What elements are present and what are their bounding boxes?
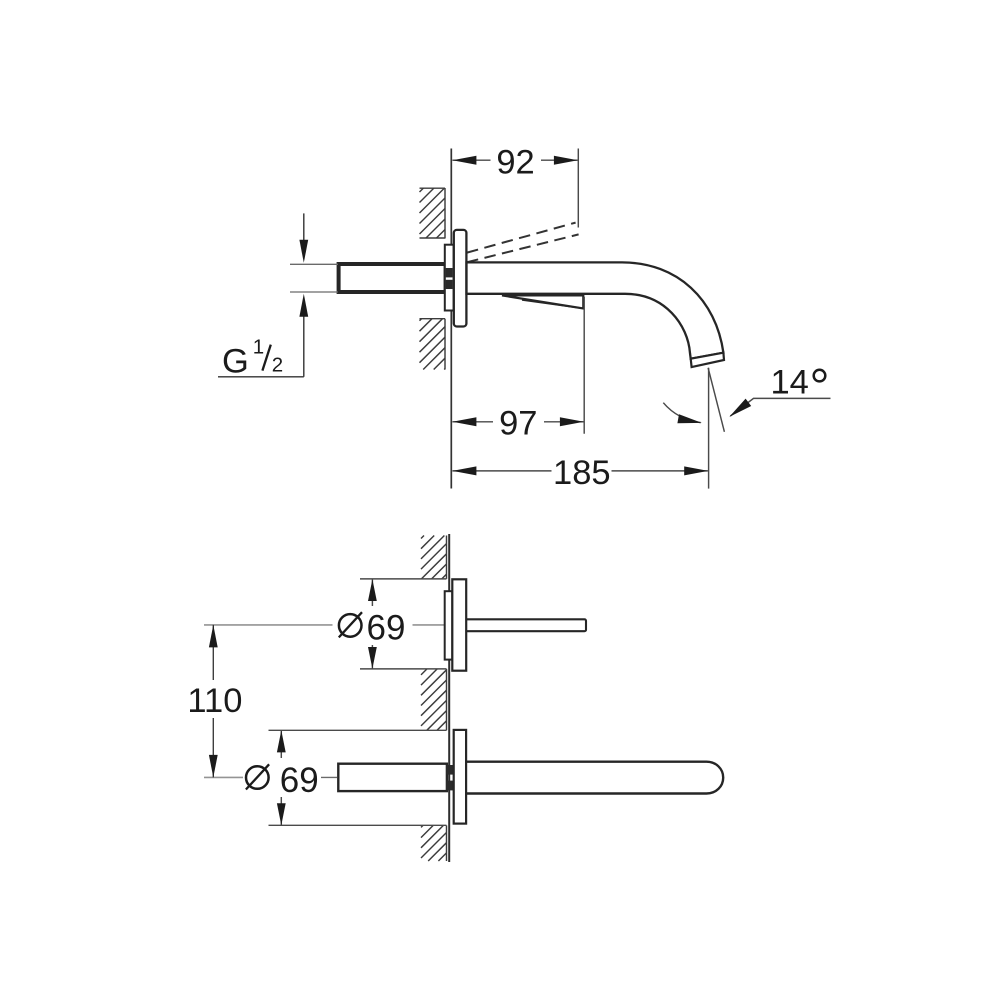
svg-text:185: 185 <box>553 454 611 492</box>
wall face line (upper view) <box>450 149 452 489</box>
wall hatching (upper view, top segment) <box>420 188 446 239</box>
escutcheon flange (upper view, in-wall) <box>445 245 454 311</box>
angle arc <box>663 403 700 423</box>
wall hatching (lower view, top segment) <box>421 536 447 579</box>
label G 1/2 <box>222 336 283 381</box>
extension lines handle view <box>360 579 447 669</box>
escutcheon plate (handle view) <box>452 579 466 670</box>
lever handle raised position (dashed) <box>467 223 579 263</box>
spout (upper view) <box>467 262 724 358</box>
escutcheon flange (handle view) <box>445 591 453 659</box>
wall face line (lower view) <box>448 534 450 862</box>
escutcheon plate (spout view) <box>454 730 466 824</box>
svg-text:110: 110 <box>187 682 242 720</box>
angle arc arrowhead <box>677 414 701 423</box>
svg-text:14: 14 <box>771 363 809 401</box>
aerator tip band <box>691 353 724 367</box>
handle lever rod <box>464 619 586 631</box>
wall hatching (lower view, bottom segment) <box>421 825 447 861</box>
leader arrowhead <box>729 399 751 417</box>
water stream line at 14 degrees <box>708 368 724 432</box>
svg-text:G: G <box>222 342 249 380</box>
lever handle inner edge <box>522 300 581 308</box>
centerline handle view <box>204 624 445 626</box>
escutcheon plate (upper view) <box>454 230 467 327</box>
supply pipe extension lines <box>290 264 338 292</box>
wall hatching (upper view, bottom segment) <box>420 319 446 370</box>
svg-text:2: 2 <box>272 353 283 376</box>
svg-text:1: 1 <box>253 336 264 359</box>
dimension diameter 69 (handle) <box>333 579 412 669</box>
dimension 110 <box>186 625 245 778</box>
G1/2 arrow down <box>299 240 308 263</box>
extension lines spout view <box>269 730 447 825</box>
dimension 185 <box>452 368 708 492</box>
wall hatching (lower view, middle segment) <box>421 669 447 730</box>
label 14 degrees leader <box>730 398 830 416</box>
thread detail at wall passage <box>446 268 453 289</box>
G1/2 arrow up <box>299 294 308 317</box>
centerline spout view <box>204 776 245 778</box>
supply pipe connection G1/2 <box>339 264 446 292</box>
dimension diameter 69 (spout) <box>243 730 321 825</box>
svg-text:69: 69 <box>280 761 319 800</box>
svg-text:97: 97 <box>499 405 537 443</box>
svg-text:69: 69 <box>367 609 406 648</box>
dimension 92 <box>452 143 578 227</box>
supply pipe (spout view) <box>338 764 447 791</box>
dimension 97 <box>452 297 584 443</box>
thread detail (spout view) <box>446 765 454 790</box>
lever handle front position <box>502 295 583 308</box>
svg-text:92: 92 <box>496 143 534 181</box>
leader to supply pipe <box>319 776 338 778</box>
spout tube (plan view) <box>460 762 723 794</box>
label G 1/2 dimension lines <box>218 213 304 376</box>
